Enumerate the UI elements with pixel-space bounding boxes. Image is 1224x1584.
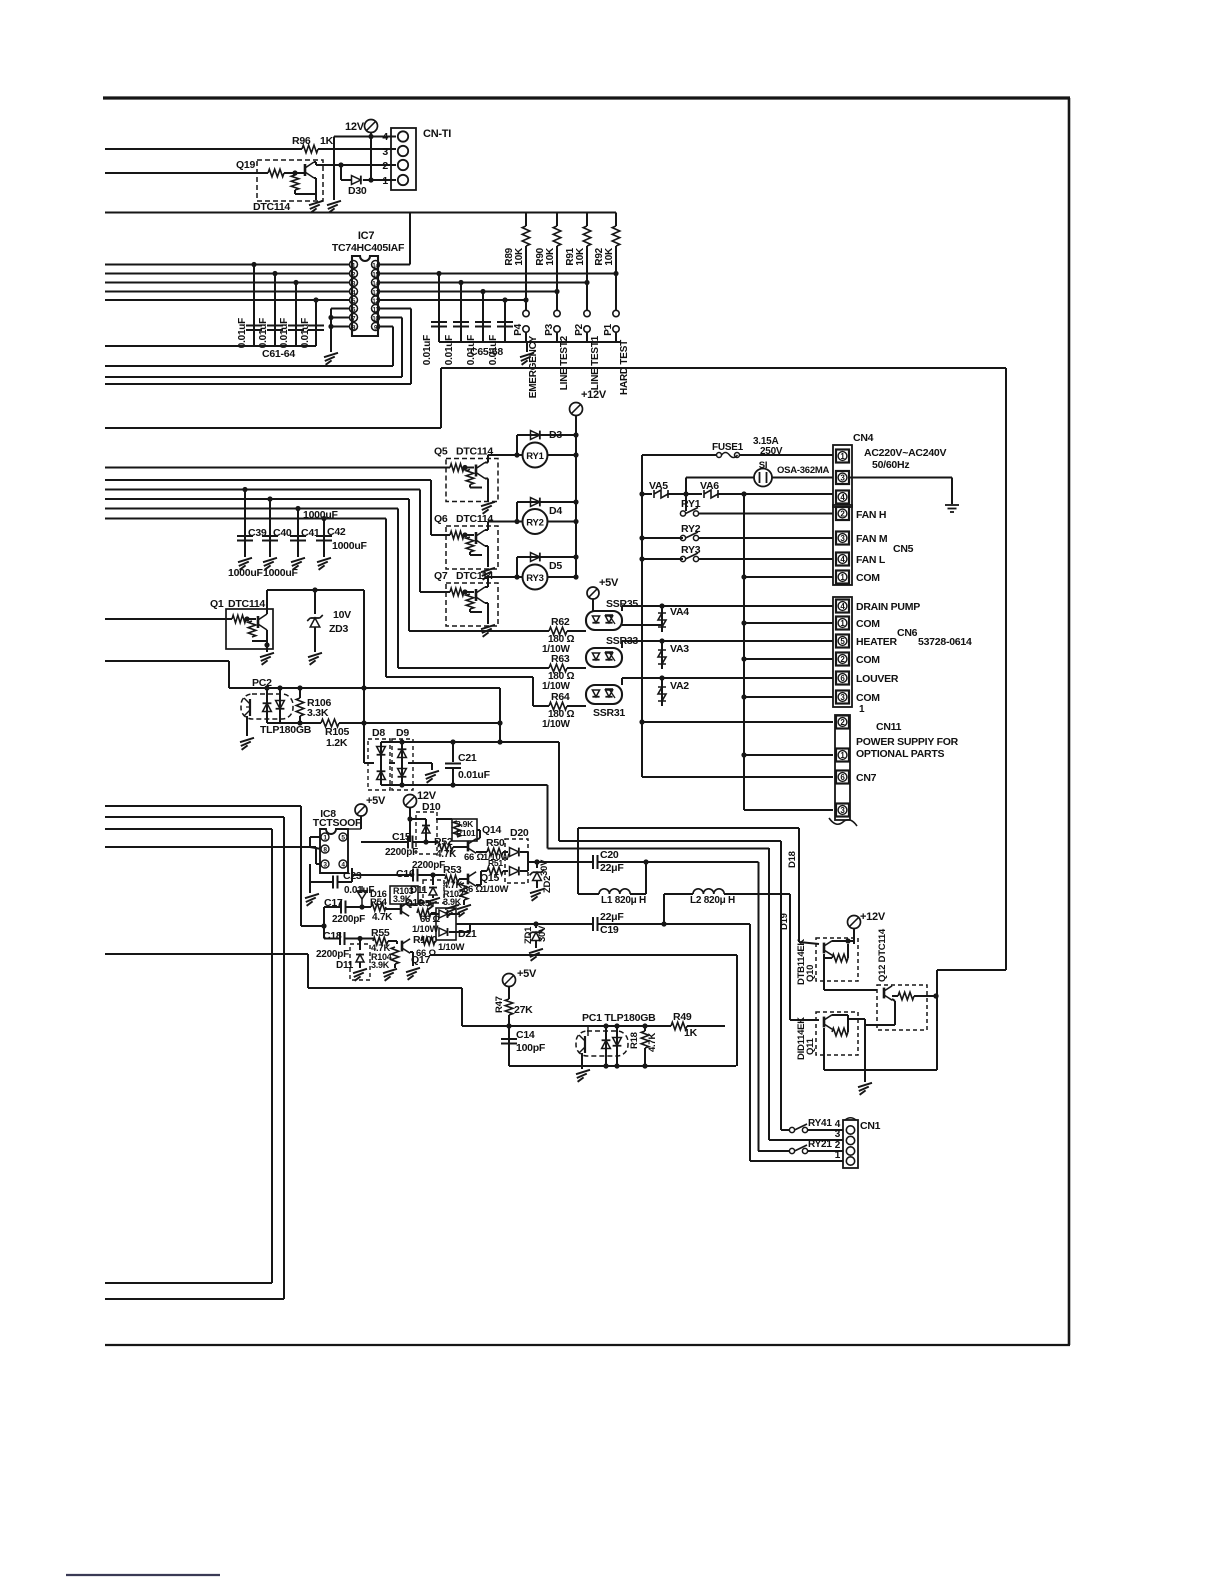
svg-text:R62: R62 (551, 616, 570, 628)
IC7 output bus 272 (380, 273, 616, 275)
ground C23 (309, 882, 311, 893)
Q12 transistor (883, 988, 886, 999)
CN11 pin1 wire (744, 754, 833, 756)
svg-text:POWER SUPPIY FOR: POWER SUPPIY FOR (856, 736, 959, 748)
wire to D30 (340, 165, 342, 180)
wire RY41 to CN1 pin4 (808, 1129, 844, 1131)
wire to Q11 base (790, 1019, 819, 1021)
dashed box diode D11a (423, 880, 444, 903)
Q7 emitter to ground (485, 602, 488, 604)
Q19 transistor (304, 164, 307, 176)
L1 right wire (630, 893, 646, 895)
capacitor C68 (504, 300, 506, 342)
IC7 left pin circles (350, 261, 358, 269)
CN5 pin 2 (836, 507, 849, 520)
CN1 top notch (845, 1118, 856, 1120)
svg-text:R64: R64 (551, 691, 570, 703)
ground below P4 rail (526, 342, 528, 352)
svg-text:Q5: Q5 (434, 446, 448, 458)
svg-text:10: 10 (372, 317, 379, 323)
L2 right wire to Q11 bus (724, 893, 790, 895)
vertical to Q12 output (936, 970, 938, 1070)
bus wire Q6 y480 (105, 479, 431, 481)
svg-text:IC7: IC7 (358, 230, 375, 242)
transistor Q5 dashed box (446, 459, 498, 502)
R96 wire to CN-TI (318, 148, 396, 150)
zener ZD2 (534, 859, 539, 864)
relay switch RY3 (642, 558, 683, 560)
RY3 coil to +12V rail (548, 576, 577, 578)
connector CN5 body (833, 505, 852, 585)
CN11 pin2 wire (642, 721, 833, 723)
capacitor C14 (501, 1038, 517, 1040)
connector CN6 body (833, 597, 852, 707)
Q19 internal wires (284, 172, 305, 174)
svg-text:VA4: VA4 (670, 606, 689, 618)
transistor Q17 (401, 941, 404, 952)
footer rule (66, 1574, 220, 1576)
connector break squiggle (829, 818, 857, 826)
svg-text:C19: C19 (600, 924, 619, 936)
resistor R105 (321, 719, 339, 727)
svg-text:1K: 1K (320, 135, 334, 147)
C19 right wire (598, 923, 751, 925)
svg-text:+5V: +5V (517, 968, 537, 980)
svg-text:FAN L: FAN L (856, 554, 886, 566)
svg-text:SI: SI (759, 460, 767, 471)
Q19 collector wire (314, 161, 316, 163)
connector CN1 body (843, 1120, 858, 1168)
bus stub y377 (105, 376, 402, 378)
dashed box diode D11b (350, 944, 370, 980)
relay box boundary (440, 368, 442, 428)
svg-text:1000uF: 1000uF (332, 540, 368, 552)
Q12 emitter (892, 999, 895, 1001)
wire C16 to R53 (418, 874, 446, 876)
PC1 diode 1 (605, 1026, 607, 1066)
bus wire Q7 y489 (105, 489, 420, 491)
svg-text:L1 820μ H: L1 820μ H (601, 895, 646, 906)
diode D4 (516, 502, 518, 522)
svg-text:4.7K: 4.7K (436, 849, 457, 860)
solid state relay SSR33 (586, 648, 622, 667)
transistor Q11 dashed box (816, 1012, 858, 1055)
svg-text:R51: R51 (488, 858, 503, 868)
svg-text:R63: R63 (551, 653, 570, 665)
wire to PC2 top rail (105, 660, 229, 662)
svg-text:1K: 1K (684, 1027, 698, 1039)
svg-text:1/10W: 1/10W (542, 719, 570, 730)
power +12V relay rail (570, 403, 583, 416)
svg-text:1000uF: 1000uF (303, 509, 339, 521)
svg-text:COM: COM (856, 618, 880, 630)
schematic right border (1068, 98, 1071, 1345)
svg-text:3.9K: 3.9K (371, 960, 390, 970)
Q6 collector wire (485, 529, 488, 531)
CN4 pin 3 (836, 471, 849, 484)
COM wire CN6 pin2 (744, 658, 833, 660)
resistor R54 (371, 903, 386, 911)
resistor R100 (421, 937, 435, 945)
COM wire CN6 pin3 (744, 696, 833, 698)
CN5 pin 1 (836, 571, 849, 584)
svg-text:0.01uF: 0.01uF (279, 318, 290, 348)
PC2 bottom rail (267, 722, 321, 724)
Q19 base resistor (268, 169, 284, 177)
schematic bottom border (105, 1344, 1070, 1346)
svg-text:4.7K: 4.7K (372, 912, 393, 923)
capacitor C16 (412, 869, 414, 882)
connector CN11-CN7 body (835, 715, 850, 820)
relay coil RY3 (523, 565, 548, 590)
svg-text:27K: 27K (514, 1004, 533, 1016)
svg-text:OPTIONAL PARTS: OPTIONAL PARTS (856, 748, 945, 760)
D9 upper diode (401, 742, 403, 785)
power 12V IC8 (404, 795, 417, 808)
wire pin4 (334, 136, 396, 138)
vertical bus RY21 via D20 line (758, 862, 760, 1151)
svg-text:D9: D9 (396, 727, 409, 739)
svg-text:1.2K: 1.2K (326, 737, 348, 749)
wire bus B y841 (558, 742, 560, 841)
bus wire R62 y499 (105, 498, 409, 500)
svg-text:D30: D30 (348, 185, 367, 197)
varistor VA5 (642, 493, 652, 495)
transistor Q12 dashed box (877, 985, 927, 1030)
svg-text:RY2: RY2 (526, 518, 543, 529)
ground below Q19 (309, 201, 323, 205)
diode D5 (516, 557, 518, 577)
svg-text:C39: C39 (248, 527, 267, 539)
svg-text:LINE TEST1: LINE TEST1 (590, 335, 601, 390)
svg-text:0.01uF: 0.01uF (458, 769, 491, 781)
connector CN4 body (833, 445, 852, 507)
svg-text:VA3: VA3 (670, 643, 689, 655)
svg-text:1/10W: 1/10W (482, 884, 508, 895)
Q5 base resistor (450, 464, 464, 472)
resistor R91 column (586, 213, 588, 227)
capacitor C66 (460, 283, 462, 343)
transistor Q7 dashed box (446, 583, 498, 626)
svg-text:Q11: Q11 (805, 1037, 816, 1055)
diode D11a (429, 888, 437, 896)
svg-text:+5V: +5V (599, 577, 619, 589)
zener ZD1 (535, 924, 537, 928)
SSR35 internal diode (592, 616, 599, 623)
IC8 pin circles left (321, 833, 329, 841)
Q7 bias resistor (466, 594, 474, 609)
connector CN-TI body (391, 128, 416, 190)
dashed box diode D9 (392, 739, 413, 790)
PC2 transistor ground (246, 716, 248, 736)
wire VA4 top (661, 606, 663, 611)
svg-text:C14: C14 (516, 1029, 535, 1041)
long bus wire y212 (105, 212, 616, 214)
Q12 output to box right (937, 969, 1006, 971)
CN6 pin 3 (836, 691, 849, 704)
SSR35 internal triac (605, 616, 612, 623)
resistor R89 column (525, 213, 527, 227)
PC1 transistor ground (581, 1053, 583, 1069)
resistor R96 (302, 145, 318, 153)
svg-text:CN4: CN4 (853, 432, 874, 444)
svg-text:D3: D3 (549, 429, 562, 441)
wire R102 ground (463, 900, 465, 905)
capacitor C15 (407, 836, 409, 849)
wire D21 lower to C19 row (460, 931, 470, 933)
svg-text:FUSE1: FUSE1 (712, 442, 744, 453)
ground R104 (394, 964, 396, 968)
wire C18 to R55 (345, 938, 374, 940)
nested bus wire 3 (105, 828, 272, 830)
svg-text:VA6: VA6 (700, 480, 719, 492)
svg-text:Q19: Q19 (236, 159, 256, 171)
relay switch RY2 (642, 537, 683, 539)
svg-text:+12V: +12V (581, 389, 607, 401)
capacitor C63 (295, 283, 297, 347)
svg-text:VA5: VA5 (649, 480, 668, 492)
resistor R50 (487, 848, 503, 856)
SSR35 lower output (622, 624, 662, 626)
resistor R92 column (615, 213, 617, 227)
svg-text:22μF: 22μF (600, 862, 624, 874)
SSR31 output to LOUVER (622, 677, 833, 679)
transistor Q6 dashed box (446, 526, 498, 569)
resistor R55 (373, 937, 388, 945)
R101 resistor element (453, 821, 461, 837)
svg-text:10K: 10K (514, 247, 525, 266)
wire Q19 collector to pin2 (316, 164, 396, 166)
Q11 transistor (823, 1017, 826, 1028)
schematic top border (103, 96, 1070, 99)
relay coil RY2 (523, 509, 548, 534)
bus wire y428 to relay box (105, 427, 441, 429)
wire CN1 pin1 (750, 1160, 843, 1162)
svg-text:RY1: RY1 (681, 498, 701, 510)
svg-text:CN5: CN5 (893, 543, 914, 555)
transistor Q10 dashed box (816, 938, 858, 981)
optocoupler PC2 dashed body (241, 694, 293, 719)
svg-text:COM: COM (856, 692, 880, 704)
Q6 transistor (475, 532, 478, 544)
diode D16 symbol (357, 891, 367, 899)
SSR31 internal diode (592, 690, 599, 697)
12V wire down (409, 808, 411, 843)
wire Q10 to Q12 base (824, 989, 877, 991)
bus wire to PC1 feed (105, 953, 308, 955)
svg-text:CN11: CN11 (876, 721, 902, 733)
capacitor C17 (340, 901, 342, 914)
CN1 pin circles (846, 1126, 854, 1134)
diode D10 (425, 819, 427, 842)
Q1 collector wire (266, 609, 268, 614)
CN5 pin 3 (836, 532, 849, 545)
Q10 transistor (823, 943, 826, 954)
CN7 pin 6 (836, 771, 849, 784)
PC2 top rail (229, 687, 500, 689)
svg-text:R18: R18 (629, 1032, 640, 1049)
svg-text:D10: D10 (422, 801, 441, 813)
surge absorber SI (754, 469, 772, 487)
bus stub y384 (105, 383, 411, 385)
ground D11a (426, 898, 440, 902)
svg-text:C17: C17 (324, 897, 343, 909)
PC2 diode 1 (266, 688, 268, 723)
svg-text:CN-TI: CN-TI (423, 128, 451, 140)
fuse FUSE1 (642, 454, 717, 456)
svg-text:Q14: Q14 (482, 824, 502, 836)
resistor R51 (487, 867, 503, 875)
Q6 emitter to ground (485, 545, 488, 547)
varistor VA4 (661, 611, 663, 632)
D20 output line to C20 (528, 861, 593, 863)
svg-text:DRAIN PUMP: DRAIN PUMP (856, 601, 920, 613)
svg-text:3: 3 (835, 1129, 841, 1140)
Q6 bias resistor (466, 537, 474, 552)
ground C40 (263, 558, 277, 562)
wire R50 to D20 (503, 851, 508, 853)
D20 diode upper (510, 848, 519, 857)
svg-text:0.01uF: 0.01uF (258, 318, 269, 348)
mid rail ground stub (431, 763, 433, 770)
D8 D9 bottom rail (381, 784, 548, 786)
ground below Q6 (481, 568, 495, 572)
svg-text:EMERGENCY: EMERGENCY (528, 335, 539, 398)
COM wire CN6 pin1 (744, 622, 833, 624)
Q10 emitter down (823, 954, 825, 990)
wire C16 row (351, 868, 353, 875)
bus wires into IC7 pins 1-5 (105, 264, 349, 266)
SSR33 output to HEATER (622, 640, 833, 642)
svg-text:66 Ω: 66 Ω (463, 884, 483, 895)
solid state relay SSR35 (586, 611, 622, 630)
resistor R103 box (390, 886, 418, 904)
capacitor C39 (244, 490, 246, 558)
svg-text:R54: R54 (370, 897, 388, 908)
IC7 body (352, 256, 378, 336)
capacitor C42 (323, 519, 325, 558)
wire C19 row (456, 923, 593, 925)
ground C42 (317, 558, 331, 562)
capacitor C23 (309, 864, 311, 882)
transistor Q14 (467, 841, 470, 852)
capacitor C40 (269, 499, 271, 557)
svg-text:R100: R100 (413, 934, 438, 946)
svg-text:1000uF: 1000uF (228, 567, 264, 579)
svg-text:D19: D19 (779, 913, 790, 930)
svg-text:C42: C42 (327, 526, 346, 538)
wire into Q1 base (105, 618, 232, 620)
CN6 pin 2 (836, 653, 849, 666)
dashed box diode D8 (368, 739, 390, 790)
svg-text:C61-64: C61-64 (262, 348, 295, 360)
Q6 base resistor (450, 531, 464, 539)
test point P1 (613, 310, 619, 316)
svg-text:11: 11 (373, 308, 380, 314)
svg-text:R52: R52 (434, 836, 453, 848)
Q7 transistor (475, 589, 478, 601)
Q14 emitter to R50 (476, 851, 487, 853)
bus wire Q5 base y467 (105, 467, 450, 469)
Q12 collector resistor wire (892, 995, 898, 997)
ground C41 (291, 558, 305, 562)
D8 lower diode (377, 771, 386, 779)
Q5 transistor (475, 465, 478, 477)
wire pin14 to top bus (380, 264, 411, 266)
bus wire R63 y508 (105, 508, 398, 510)
CN6 pin 1 (836, 617, 849, 630)
CN11 pin 2 (836, 716, 849, 729)
D20 output join (527, 852, 529, 871)
Q11 bias resistor (832, 1028, 848, 1036)
svg-text:HEATER: HEATER (856, 636, 898, 648)
svg-text:CN1: CN1 (860, 1120, 881, 1132)
wire pin3 row (686, 477, 833, 479)
ground below Q7 (481, 625, 495, 629)
Q5 emitter to ground (485, 478, 488, 480)
svg-text:R53: R53 (443, 864, 462, 876)
wire RY1 to FAN H (699, 513, 834, 515)
svg-text:0.01uF: 0.01uF (300, 318, 311, 348)
svg-text:3.3K: 3.3K (307, 707, 329, 719)
svg-text:2200pF: 2200pF (316, 949, 349, 960)
diode D3 (516, 435, 518, 455)
PC2 diode 2 (279, 688, 281, 723)
Q16 Q17 output wires (410, 904, 414, 906)
svg-text:14: 14 (372, 264, 379, 270)
svg-text:D20: D20 (510, 827, 529, 839)
wire 12V down (370, 133, 372, 181)
inductor L2 (664, 893, 693, 895)
svg-text:C41: C41 (301, 527, 320, 539)
svg-text:Q7: Q7 (434, 570, 448, 582)
power +5V PC1 (503, 974, 516, 987)
vertical wire x364 Q1 rail to D8 (363, 590, 365, 763)
svg-text:C40: C40 (273, 527, 292, 539)
svg-text:1/10W: 1/10W (438, 942, 464, 953)
varistor VA6 (704, 490, 718, 498)
svg-text:R50: R50 (486, 837, 505, 849)
svg-text:12V: 12V (345, 121, 365, 133)
svg-text:LOUVER: LOUVER (856, 673, 899, 685)
svg-text:PC2: PC2 (252, 677, 272, 689)
svg-text:D18: D18 (787, 851, 798, 868)
ground D11b (353, 969, 367, 973)
PC1 diode 2 (616, 1026, 618, 1066)
CN4 pin 4 (836, 491, 849, 504)
ground Q17 (410, 951, 413, 953)
svg-text:TLP180GB: TLP180GB (260, 724, 312, 736)
vertical bus to CN1 pin1 (749, 924, 751, 1161)
bus stub y366 (105, 365, 393, 367)
SSR31 internal triac (605, 690, 612, 697)
Q1 bias resistor (248, 621, 256, 637)
svg-text:53728-0614: 53728-0614 (918, 636, 972, 648)
Q1 collector rail (267, 589, 364, 591)
transistor Q15 (467, 874, 470, 885)
svg-text:1: 1 (382, 175, 388, 187)
svg-text:14: 14 (372, 282, 379, 288)
power +12V Q10 (848, 916, 861, 929)
Q1 base resistor (232, 615, 246, 623)
resistor R52 (438, 843, 453, 851)
svg-text:R55: R55 (371, 927, 390, 939)
PC2 top rail down-join (499, 688, 501, 742)
SSR33 internal diode (592, 653, 599, 660)
capacitor C20 (592, 855, 594, 869)
CN4 pin3 wire to earth (849, 477, 952, 479)
IC7 right pin circles (372, 261, 380, 269)
